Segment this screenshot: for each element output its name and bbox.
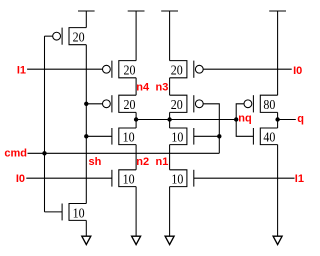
wire sh to M4 bubble <box>86 103 102 105</box>
transistor M11 PMOS 80 output inverter pull-up <box>244 95 278 113</box>
transistor M4 PMOS 20 gate sh <box>103 95 137 113</box>
wire column C row4-row5 <box>169 145 171 170</box>
wire V1 to M2 gate <box>45 211 63 213</box>
node nq junction dot at column B <box>134 117 138 121</box>
node sh junction dot at M4 gate <box>84 102 88 106</box>
svg-text:10: 10 <box>73 206 85 221</box>
wire column D row3-row4 through q <box>277 112 279 128</box>
svg-text:n4: n4 <box>136 81 150 93</box>
svg-text:20: 20 <box>73 31 85 46</box>
wire M9 gate to cmd-bus <box>194 135 220 137</box>
node sh junction dot at M5 gate <box>84 134 88 138</box>
ground symbol B <box>132 236 141 244</box>
transistor M6 NMOS 10 gate I0 <box>112 170 136 188</box>
svg-text:80: 80 <box>263 98 275 113</box>
wire cmd horizontal <box>28 136 220 153</box>
wire nq to M12 gate <box>236 120 253 137</box>
svg-text:n3: n3 <box>156 81 169 93</box>
wire column B row2-row3 <box>135 78 137 95</box>
transistor M7 PMOS 20 gate I0 (mirrored) <box>170 61 204 79</box>
svg-text:n1: n1 <box>156 156 169 168</box>
wire I0 left <box>26 177 112 179</box>
wire column B row3-row4 through nq <box>135 112 137 128</box>
wire I0 right <box>203 68 292 70</box>
wire net nq horizontal <box>136 119 236 121</box>
transistor M3 PMOS 20 gate I1 <box>103 61 137 79</box>
vdd T-bar rail A <box>78 11 95 28</box>
transistor M12 NMOS 40 output inverter pull-down <box>253 128 277 146</box>
vdd T-bar rail D <box>269 11 286 95</box>
svg-text:10: 10 <box>171 131 183 146</box>
transistor M5 NMOS 10 gate sh <box>112 128 136 146</box>
transistor M10 NMOS 10 gate I1 (mirrored) <box>170 170 194 188</box>
svg-text:sh: sh <box>89 156 102 168</box>
wire column C row2-row3 <box>169 78 171 95</box>
svg-text:I0: I0 <box>16 173 25 185</box>
svg-text:20: 20 <box>171 98 183 113</box>
wire V1 to M1 bubble <box>45 35 53 37</box>
wire column B to ground <box>135 187 137 237</box>
svg-text:n2: n2 <box>136 156 149 168</box>
vdd T-bar rail B <box>128 11 145 61</box>
svg-text:nq: nq <box>238 112 251 124</box>
vdd T-bar rail C <box>161 11 178 61</box>
wire column B row4-row5 <box>135 145 137 170</box>
node nq junction dot <box>234 117 238 121</box>
ground symbol A <box>82 236 91 244</box>
wire cmd vertical V1 <box>44 36 46 212</box>
transistor M2 NMOS 10 cmd-inverter pull-down <box>62 204 86 222</box>
wire net q <box>278 119 296 121</box>
wire column A to ground <box>85 220 87 236</box>
wire nq to M11 bubble <box>236 104 244 120</box>
svg-text:10: 10 <box>171 173 183 188</box>
node cmd junction dot on V1 <box>42 151 46 155</box>
wire sh to M5 gate <box>86 135 112 137</box>
svg-text:20: 20 <box>124 98 136 113</box>
svg-text:cmd: cmd <box>4 148 27 160</box>
node q junction dot <box>275 117 279 121</box>
node nq junction dot at column C <box>167 117 171 121</box>
ground symbol C <box>165 236 174 244</box>
transistor M9 NMOS 10 gate cmd (mirrored) <box>170 128 194 146</box>
svg-text:I0: I0 <box>293 65 302 77</box>
svg-text:20: 20 <box>124 64 136 79</box>
wire I1 right <box>194 177 295 179</box>
svg-text:20: 20 <box>171 64 183 79</box>
svg-text:I1: I1 <box>17 65 26 77</box>
node cmd-bus junction dot <box>217 134 221 138</box>
svg-text:q: q <box>297 113 304 125</box>
svg-text:I1: I1 <box>295 173 304 185</box>
svg-text:40: 40 <box>263 131 275 146</box>
ground symbol D <box>273 236 282 244</box>
svg-text:10: 10 <box>123 131 135 146</box>
svg-text:10: 10 <box>123 173 135 188</box>
transistor M8 PMOS 20 gate cmd (mirrored) <box>170 95 204 113</box>
wire column C to ground <box>169 187 171 237</box>
wire I1 left <box>27 68 102 70</box>
wire column D to ground <box>277 145 279 237</box>
wire column C row3-row4 through nq <box>169 112 171 128</box>
wire column A mid segment <box>85 45 87 204</box>
transistor M1 PMOS 20 cmd-inverter pull-up <box>53 28 87 46</box>
wire cmd-bus from M8 bubble down <box>203 104 219 137</box>
